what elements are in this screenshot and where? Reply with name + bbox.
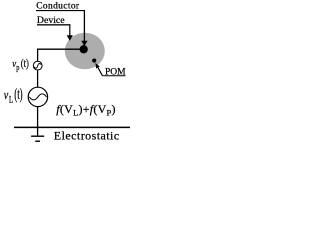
svg-text:L: L — [9, 94, 13, 104]
svg-text:(t): (t) — [14, 85, 22, 102]
svg-text:p: p — [16, 63, 20, 72]
svg-text:POM: POM — [105, 68, 126, 78]
svg-text:Electrostatic: Electrostatic — [54, 129, 120, 143]
svg-text:(t): (t) — [21, 58, 29, 71]
